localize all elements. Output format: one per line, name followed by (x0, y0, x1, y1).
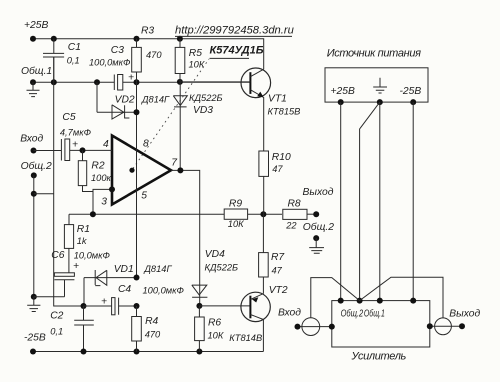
resistor R9 (224, 209, 247, 219)
transistor VT2 (241, 292, 270, 321)
svg-text:КТ814В: КТ814В (229, 333, 262, 343)
node amp -25 (410, 298, 416, 304)
svg-text:10К: 10К (189, 60, 205, 70)
svg-text:VT2: VT2 (269, 285, 288, 296)
svg-text:10,0мкФ: 10,0мкФ (74, 250, 111, 260)
ground in supply box (373, 78, 387, 93)
svg-text:470: 470 (146, 50, 162, 60)
svg-text:C4: C4 (118, 284, 131, 295)
node pin3 dot (109, 186, 115, 192)
svg-text:Д814Г: Д814Г (141, 95, 170, 105)
capacitor C4 (84, 305, 112, 307)
node supply terminal gnd (377, 99, 383, 105)
capacitor C6 (54, 273, 74, 277)
svg-text:47: 47 (272, 265, 283, 275)
capacitor C1 (43, 39, 64, 83)
wire pin3 connection (93, 189, 112, 214)
wire input to C5 (34, 150, 62, 152)
node supply terminal 2 (410, 99, 416, 105)
wire input riser (311, 278, 360, 318)
svg-text:R2: R2 (91, 161, 104, 172)
wire gnd straight to amp (379, 102, 381, 301)
node VD1 anode junction (134, 275, 140, 281)
svg-text:КТ815В: КТ815В (268, 107, 301, 117)
svg-text:8: 8 (143, 139, 149, 150)
diode VD4 (192, 285, 208, 297)
node top rail R3 (134, 36, 140, 42)
svg-text:VD3: VD3 (193, 105, 213, 116)
svg-text:+: + (101, 297, 107, 308)
wire C5 to pin4 (70, 149, 112, 151)
node input box edge (329, 324, 335, 330)
svg-text:R1: R1 (77, 224, 90, 235)
wire opamp type underline (210, 57, 250, 59)
svg-text:-25В: -25В (24, 332, 46, 343)
node amp obsh1 (377, 298, 383, 304)
op-amp U1 triangle (112, 136, 171, 205)
wire dashed callout (133, 59, 209, 169)
wire common2 to C1 column (34, 193, 54, 195)
node op-amp center dot (129, 168, 134, 173)
capacitor C2 (74, 306, 94, 352)
svg-text:5: 5 (141, 191, 147, 202)
wire output through line (430, 325, 462, 327)
node bottom common (31, 294, 37, 300)
svg-text:R6: R6 (208, 317, 221, 328)
svg-text:VD1: VD1 (114, 264, 134, 275)
svg-text:100,0мкФ: 100,0мкФ (89, 58, 131, 68)
svg-text:Вход: Вход (20, 134, 43, 145)
ground bottom left (27, 297, 40, 312)
node output box edge (427, 323, 433, 329)
wire bias column through opamp (136, 82, 138, 277)
wire common1 line right (123, 81, 251, 83)
wire bottom -25V rail (33, 351, 263, 353)
node common2 branch (31, 191, 37, 197)
ground under Obsh2 (309, 238, 324, 253)
wire feedback corner to R1 (68, 214, 70, 224)
wire C1 column down (54, 57, 84, 306)
node rail C2 (81, 349, 87, 355)
wire -25 to amp (412, 102, 414, 301)
svg-text:КД522Б: КД522Б (189, 93, 223, 103)
node input outer (295, 324, 301, 330)
svg-text:10К: 10К (228, 219, 244, 229)
resistor R3 (136, 39, 138, 83)
svg-text:470: 470 (145, 330, 161, 340)
svg-text:R7: R7 (271, 252, 285, 263)
svg-text:C3: C3 (111, 45, 124, 56)
node rail R6 (196, 349, 202, 355)
svg-text:R3: R3 (141, 25, 154, 36)
resistor R10 (263, 151, 265, 214)
svg-text:К574УД1Б: К574УД1Б (210, 45, 264, 57)
node supply terminal 1 (338, 99, 344, 105)
node C4 R4 junction (134, 303, 140, 309)
svg-text:C6: C6 (51, 250, 64, 261)
svg-text:Общ.2: Общ.2 (341, 308, 364, 320)
svg-text:Общ.2: Общ.2 (21, 160, 52, 172)
svg-text:-25В: -25В (400, 86, 422, 97)
node output outer (459, 323, 465, 329)
svg-text:100,0мкФ: 100,0мкФ (143, 285, 185, 295)
capacitor C3 (113, 75, 115, 91)
svg-text:0,1: 0,1 (50, 327, 63, 337)
wire url underline (175, 35, 292, 37)
transistor VT1 (241, 68, 271, 98)
svg-text:4: 4 (103, 139, 109, 150)
svg-text:Источник питания: Источник питания (327, 47, 421, 59)
node common1 C1 (51, 79, 57, 85)
resistor R6 (198, 306, 200, 352)
wire top +25V rail (33, 39, 264, 69)
wire to VT2 base (199, 305, 250, 307)
node common1 VD2 (94, 79, 100, 85)
resistor R2 (83, 150, 94, 191)
node common2 terminal (31, 172, 37, 178)
node feedback pin3 junction (90, 211, 96, 217)
svg-text:Общ.1: Общ.1 (364, 308, 385, 320)
wire VD1 to bottom node (83, 278, 85, 306)
resistor R1 (64, 225, 73, 249)
svg-text:3: 3 (101, 197, 107, 208)
svg-text:47: 47 (272, 164, 283, 174)
node top rail terminal (30, 36, 36, 42)
node rail R4 (134, 349, 140, 355)
svg-text:C5: C5 (62, 112, 75, 123)
wire opamp output (171, 170, 200, 306)
svg-text:Усилитель: Усилитель (351, 351, 407, 363)
svg-text:КД522Б: КД522Б (205, 262, 239, 272)
power supply box (325, 68, 428, 102)
resistor R8 (283, 209, 307, 219)
svg-text:+25В: +25В (24, 20, 48, 31)
svg-text:Выход: Выход (449, 308, 480, 319)
diode VD1 zener (84, 270, 137, 286)
wire output riser (360, 277, 443, 318)
input circle (302, 318, 320, 336)
svg-text:http://299792458.3dn.ru: http://299792458.3dn.ru (175, 25, 294, 37)
node input terminal (31, 148, 37, 154)
node common1 terminal (30, 79, 36, 85)
wire +25 to amp (340, 102, 342, 301)
svg-text:R8: R8 (288, 199, 301, 210)
svg-text:R4: R4 (145, 316, 158, 327)
node R2 top junction (80, 147, 86, 153)
wire gnd diagonal to amp (360, 102, 380, 301)
node mid common (81, 303, 87, 309)
wire common1 line left (33, 81, 114, 83)
diode VD2 zener (97, 82, 137, 112)
svg-text:R9: R9 (229, 199, 242, 210)
svg-text:C2: C2 (50, 311, 63, 322)
node output pin7 (177, 167, 183, 173)
svg-text:Вход: Вход (278, 308, 301, 319)
capacitor C5 (60, 139, 62, 161)
svg-text:10К: 10К (208, 331, 224, 341)
node VD4 R6 junction (196, 303, 202, 309)
node output terminal (313, 211, 319, 217)
node top rail C1 (51, 36, 57, 42)
svg-text:Выход: Выход (303, 187, 334, 198)
wire common2 down rail (33, 175, 35, 296)
node amp +25 (338, 298, 344, 304)
resistor R7 (262, 214, 264, 293)
diode VD3 (173, 82, 187, 170)
svg-text:R5: R5 (189, 48, 202, 59)
svg-text:4,7мкФ: 4,7мкФ (60, 127, 92, 137)
wire input through line (298, 326, 332, 328)
resistor R5 (179, 39, 181, 82)
node VD2 cathode junction (134, 109, 140, 115)
node ground terminal (313, 235, 319, 241)
wire feedback line (69, 213, 225, 215)
svg-text:VD2: VD2 (115, 95, 135, 106)
svg-text:R10: R10 (272, 152, 291, 163)
amplifier box (332, 301, 430, 347)
svg-text:C1: C1 (68, 42, 81, 53)
svg-text:+: + (128, 73, 134, 84)
svg-text:0,1: 0,1 (67, 56, 80, 66)
node top rail R5 (177, 36, 183, 42)
svg-text:+: + (73, 261, 79, 272)
svg-text:VT1: VT1 (268, 94, 287, 105)
svg-text:1k: 1k (77, 236, 88, 246)
svg-text:+: + (72, 140, 78, 151)
svg-text:Д814Г: Д814Г (143, 264, 172, 274)
ground under common1 (27, 82, 40, 96)
svg-text:100к: 100к (91, 173, 112, 183)
svg-text:VD4: VD4 (205, 249, 225, 260)
svg-text:Общ.1: Общ.1 (21, 65, 52, 77)
node common1 R5 (177, 79, 183, 85)
output circle (435, 318, 452, 335)
node output emitters junction (260, 211, 266, 217)
wire bottom common to C6 (34, 296, 65, 298)
svg-text:+25В: +25В (331, 86, 355, 97)
node amp obsh2 (357, 298, 363, 304)
svg-text:Общ.2: Общ.2 (303, 221, 334, 233)
resistor R4 (136, 306, 138, 352)
node rail terminal (30, 349, 36, 355)
node common1 R3 (134, 79, 140, 85)
svg-text:22: 22 (285, 220, 297, 230)
